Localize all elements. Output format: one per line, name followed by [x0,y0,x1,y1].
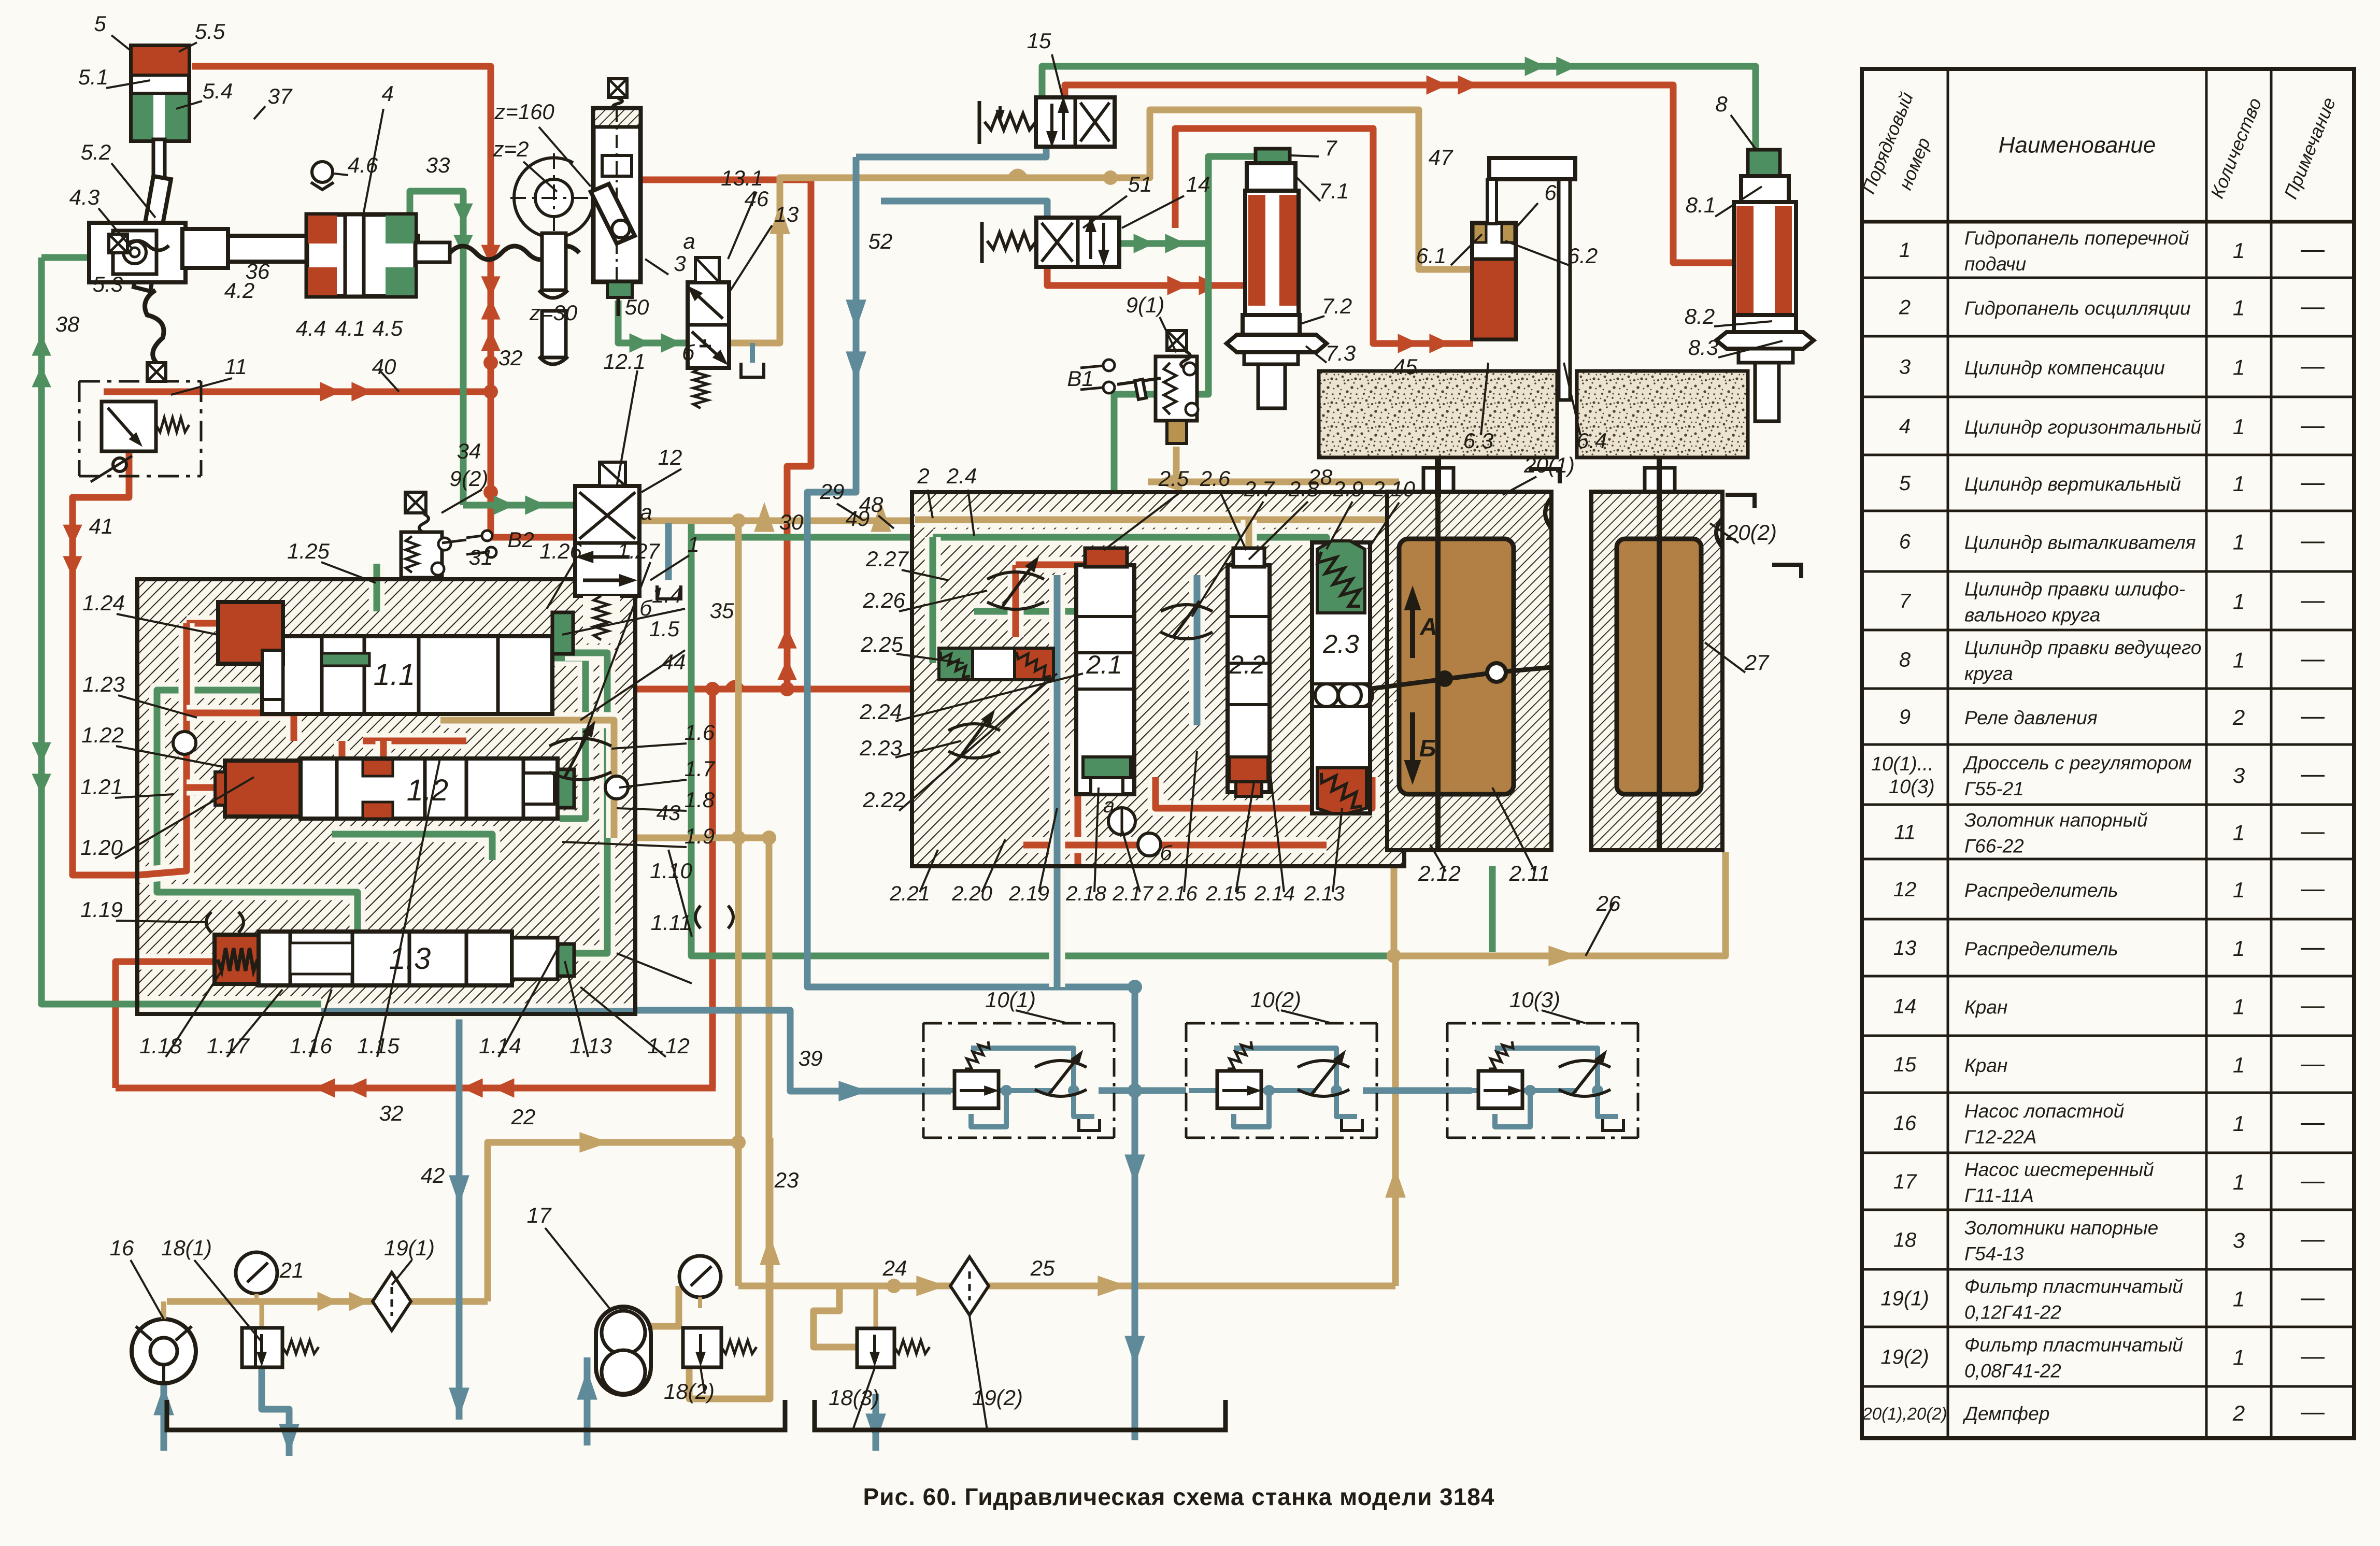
svg-text:1.23: 1.23 [82,672,125,696]
wire tan 29 corridor vertical [735,521,742,1286]
wire tan 30 49 from distributor 12 [637,518,915,524]
pressure valve 18(1) [242,1328,282,1367]
svg-text:1.20: 1.20 [80,835,123,860]
svg-text:Золотники напорные: Золотники напорные [1964,1218,2158,1239]
cylinder 7 pointed collar 7.3 [1227,335,1327,352]
svg-text:—: — [2301,1284,2325,1311]
svg-text:48: 48 [859,492,883,517]
10(2) relief box [1217,1071,1261,1108]
svg-text:2.9: 2.9 [1333,477,1363,501]
bracket 4.3 [89,223,186,282]
svg-text:—: — [2301,933,2325,960]
svg-text:19(1): 19(1) [1880,1287,1929,1310]
svg-text:3: 3 [674,251,686,276]
svg-text:11: 11 [224,354,247,379]
svg-text:1: 1 [2233,590,2245,614]
svg-text:—: — [2301,1108,2325,1135]
svg-text:a: a [640,500,652,524]
distributor 13 drain bracket [741,363,764,377]
wire blue 42 vertical from panel 1 [456,1011,463,1420]
svg-text:1.13: 1.13 [569,1034,612,1058]
grinding wheel z=160 [514,158,594,238]
compensation cylinder 3 [593,108,640,282]
svg-text:Насос шестеренный: Насос шестеренный [1964,1159,2154,1180]
svg-text:1: 1 [2233,296,2245,320]
10(2) adjustable throttle [1298,1061,1349,1067]
svg-text:б: б [682,340,695,365]
crane 15 spring lever [978,101,981,144]
svg-text:50: 50 [625,295,649,319]
svg-text:z=30: z=30 [529,300,578,325]
spool 1.1 [262,636,552,714]
panel 2 wire blue internals [1049,575,1065,987]
pilot valve green spring box 2.25 [939,648,973,680]
dresser cylinder 7 [1256,149,1290,163]
svg-text:11: 11 [1894,821,1916,844]
10(1) drain bracket [1079,1119,1100,1130]
throttle with regulator 10(3) dash-dot box [1447,1022,1638,1025]
wire tan valve 18(3) loop [814,1286,857,1347]
spool 1.3 green end 1.13 [558,944,574,976]
cylinder 5 tilted arm 5.2 [134,176,171,291]
svg-text:34: 34 [457,439,481,463]
distributor 12 [575,486,639,596]
svg-text:1: 1 [1899,239,1911,262]
svg-text:15: 15 [1893,1053,1917,1076]
svg-text:2.14: 2.14 [1254,882,1295,905]
svg-text:1.4: 1.4 [652,583,682,607]
svg-text:1.1: 1.1 [374,658,416,692]
svg-text:22: 22 [511,1105,536,1129]
wire red 40 from relief valve 11 to main trunk [104,389,491,395]
svg-text:8: 8 [1899,649,1911,671]
valve 2.3 column with springs [1312,542,1370,813]
panel 1 wire red internals [187,615,218,632]
svg-text:—: — [2301,1342,2325,1369]
svg-text:Г66-22: Г66-22 [1964,836,2024,857]
svg-text:7.1: 7.1 [1319,179,1349,203]
panel 2 wire red internals [1008,565,1024,637]
svg-text:1: 1 [2233,1287,2245,1311]
wire green corridor vertical to oscillation panel [691,521,1388,956]
hydropanel 1 cross feed block [137,579,635,1014]
wire blue 52 vertical [807,157,1131,987]
svg-text:Фильтр пластинчатый: Фильтр пластинчатый [1964,1335,2183,1356]
svg-text:2.21: 2.21 [889,882,930,905]
svg-text:10(2): 10(2) [1250,987,1301,1012]
svg-text:a: a [683,229,695,253]
svg-text:16: 16 [1893,1112,1917,1135]
tank bracket right [815,1400,1225,1430]
svg-text:—: — [2301,586,2325,613]
crane 15 [1036,97,1115,147]
svg-text:1: 1 [2233,355,2245,380]
svg-text:2.8: 2.8 [1288,477,1319,501]
cylinder 8 pointed collar 8.3 [1716,332,1814,349]
wire red top loop from crane 15 to cylinder 8 [1065,85,1736,263]
svg-text:Г11-11А: Г11-11А [1964,1185,2034,1206]
wire tan 26 bottom of reservoirs [1394,850,1726,956]
svg-text:2.25: 2.25 [860,632,903,656]
cylinder 4 rod right [416,242,450,262]
reservoir 2 stem [1657,457,1662,850]
svg-text:27: 27 [1744,650,1770,675]
svg-text:0,12Г41-22: 0,12Г41-22 [1964,1302,2061,1323]
svg-text:2.27: 2.27 [865,547,909,571]
svg-text:Демпфер: Демпфер [1962,1403,2049,1424]
svg-text:Гидропанель поперечной: Гидропанель поперечной [1964,227,2189,249]
svg-text:z=2: z=2 [493,137,529,161]
svg-text:10(3): 10(3) [1509,987,1560,1012]
svg-text:2.15: 2.15 [1205,882,1247,905]
svg-text:43: 43 [657,800,681,825]
svg-text:Дроссель с регулятором: Дроссель с регулятором [1962,752,2192,774]
cylinder 3 tilted link [591,184,635,244]
wire red 32 long bottom line [116,1085,716,1092]
svg-text:1: 1 [2233,530,2245,554]
svg-text:19(2): 19(2) [1880,1346,1929,1369]
spool 1.2 [301,758,558,819]
svg-text:2.10: 2.10 [1372,477,1415,501]
svg-text:—: — [2301,1167,2325,1194]
svg-text:13: 13 [1893,937,1917,960]
svg-text:Г12-22А: Г12-22А [1964,1126,2036,1148]
svg-text:подачи: подачи [1964,253,2026,275]
svg-text:Распределитель: Распределитель [1964,938,2118,960]
reservoir 2 tank 27 brown [1617,539,1701,794]
svg-text:Цилиндр правки ведущего: Цилиндр правки ведущего [1964,637,2201,659]
wire tan 24 25 bottom run [738,1283,1395,1290]
svg-text:5.5: 5.5 [195,19,225,44]
svg-text:Распределитель: Распределитель [1964,880,2118,901]
wire tan 28 into oscillation panel [1148,479,1399,485]
svg-text:Г54-13: Г54-13 [1964,1243,2024,1265]
svg-text:1: 1 [2233,878,2245,902]
svg-text:25: 25 [1030,1256,1055,1280]
svg-text:2.2: 2.2 [1229,650,1265,679]
svg-text:7: 7 [1899,590,1912,613]
svg-text:9: 9 [1899,706,1911,728]
damper 20(2) bracket [1716,518,1722,547]
pressure valve 18(3) tan stub [874,1286,878,1328]
wire red 37 from cylinder 5 to main red trunk [192,66,491,363]
svg-text:32: 32 [379,1101,404,1125]
gauge at pump 16 [236,1252,277,1294]
svg-text:1: 1 [2233,1053,2245,1077]
svg-text:18(1): 18(1) [161,1236,212,1260]
svg-text:8.2: 8.2 [1685,304,1715,328]
lead cylinder 8 [1748,150,1780,176]
svg-text:Кран: Кран [1964,1055,2007,1076]
wire blue to crane 14 [881,201,1047,218]
10(1) relief box [954,1071,999,1108]
reservoir 1 lever and pivots [1436,670,1453,687]
valve 2.1 column [1076,565,1134,794]
svg-text:Кран: Кран [1964,997,2007,1018]
svg-text:6.1: 6.1 [1416,244,1446,268]
svg-text:3: 3 [2233,1228,2245,1253]
svg-text:1: 1 [2233,1345,2245,1370]
svg-text:1.24: 1.24 [82,591,125,615]
svg-text:4: 4 [1899,415,1911,438]
svg-text:B1: B1 [1067,366,1093,391]
wire red left column to 1.18 [116,962,217,1088]
svg-text:—: — [2301,702,2325,729]
svg-text:z=160: z=160 [494,99,554,124]
svg-text:1.9: 1.9 [685,824,715,848]
svg-text:Реле давления: Реле давления [1964,707,2098,728]
svg-text:2: 2 [2232,1401,2245,1425]
check valve 1.21 [173,732,196,754]
svg-text:вального круга: вального круга [1964,605,2100,626]
svg-text:9(2): 9(2) [450,466,489,491]
wire blue main return vertical 42 middle [1132,987,1138,1440]
svg-text:Насос лопастной: Насос лопастной [1964,1100,2124,1122]
svg-text:Цилиндр компенсации: Цилиндр компенсации [1964,357,2165,379]
svg-text:9(1): 9(1) [1126,293,1165,317]
reservoir 1 inner white notches [1393,562,1436,674]
svg-text:42: 42 [421,1163,445,1187]
vane pump 16 [132,1319,196,1383]
svg-text:18(3): 18(3) [829,1385,879,1410]
leader lines for labels [111,35,132,52]
pressure relay 9(1) [1156,356,1197,421]
10(1) internal blue wiring [926,1088,954,1093]
svg-text:17: 17 [527,1203,552,1227]
svg-text:3: 3 [1899,356,1911,379]
svg-text:14: 14 [1893,995,1917,1018]
cylinder 7 stem [1244,352,1298,364]
svg-text:32: 32 [498,346,523,370]
arrow B down [1410,712,1415,772]
wire green stub to carriage [41,254,228,261]
svg-text:8.3: 8.3 [1688,335,1718,360]
svg-text:Цилиндр вертикальный: Цилиндр вертикальный [1964,474,2181,495]
svg-text:1.25: 1.25 [287,539,330,563]
svg-text:2.22: 2.22 [862,788,905,812]
svg-text:Цилиндр правки шлифо-: Цилиндр правки шлифо- [1964,579,2185,600]
svg-text:—: — [2301,1225,2325,1252]
panel 1 wire green internals [157,665,358,933]
reservoir container 1 hatched [1387,492,1551,850]
panel 2 wire green to valve 2.1 [974,565,1088,611]
svg-text:—: — [2301,235,2325,262]
wire tan 22 from pump group [488,1142,739,1301]
wire green from crane 14 to dresser cylinder 7 [1118,156,1257,244]
wire red 41 from relief valve down into panel 1 [73,451,138,875]
panel 1 wire tan internals 43 [440,720,614,838]
svg-text:6.2: 6.2 [1567,244,1598,268]
svg-text:17: 17 [1893,1170,1917,1193]
svg-text:—: — [2301,411,2325,438]
svg-text:Г55-21: Г55-21 [1964,778,2024,799]
10(3) relief box [1478,1071,1522,1108]
svg-text:46: 46 [745,187,769,211]
svg-text:18(2): 18(2) [664,1379,715,1404]
wire green 34 into distributor 12 [463,502,576,509]
svg-text:47: 47 [1429,145,1453,169]
arrow A up [1410,598,1415,658]
crane 14 [1036,218,1119,267]
spool 1.1 green end 1.4 [552,612,573,654]
wire green 33 from horizontal cylinder [410,191,463,505]
svg-text:29: 29 [820,479,845,504]
svg-text:33: 33 [426,153,450,177]
wire red 52 vertical middle [787,180,811,689]
pressure valve 18(3) [857,1328,894,1367]
10(3) adjustable throttle [1559,1061,1611,1067]
svg-text:—: — [2301,645,2325,672]
svg-text:1: 1 [2233,471,2245,496]
wire red horizontal 46 junction area [617,177,811,183]
wire red 44 from panel 1 to oscillation panel [635,686,1016,693]
pilot valve red spring box 2.24 [1015,648,1053,680]
svg-text:4: 4 [381,81,393,106]
svg-text:б: б [1160,842,1173,865]
switch B2 contacts [482,531,492,541]
svg-text:5.1: 5.1 [78,65,108,89]
wire blue panel 1 bottom to 39 line [635,1010,951,1091]
svg-text:10(1)...: 10(1)... [1871,753,1933,775]
throttle symbol 2.7 middle [1161,605,1213,611]
svg-text:А: А [1419,613,1437,640]
svg-text:37: 37 [268,84,293,108]
reservoir 1 stem [1435,457,1441,850]
svg-text:20(1): 20(1) [1523,453,1575,477]
reservoir 1 piston block [1423,468,1453,492]
relay 9(1) tan foot [1167,421,1187,443]
svg-text:30: 30 [779,510,804,534]
svg-text:1.5: 1.5 [649,617,680,641]
valve 2.2 column [1228,565,1270,792]
svg-text:8.1: 8.1 [1686,193,1716,217]
cylinder 7 collar 7.2 [1243,315,1300,335]
svg-text:4.1: 4.1 [335,316,365,340]
svg-text:2.4: 2.4 [946,464,977,488]
svg-text:2.13: 2.13 [1304,882,1345,905]
svg-text:2: 2 [917,464,929,488]
svg-text:2.19: 2.19 [1008,882,1049,905]
horizontal cylinder 4 [307,214,416,296]
svg-text:8: 8 [1715,92,1728,116]
pressure valve 18(2) [683,1328,721,1367]
panel 2 wire green top [933,537,1327,565]
svg-text:1: 1 [2233,821,2245,845]
distributor 12 solenoid 12.1 [600,462,625,486]
crane 14 spring lever [980,222,984,263]
svg-text:1.22: 1.22 [81,723,124,747]
svg-text:5.4: 5.4 [203,79,233,103]
svg-text:4.4: 4.4 [296,316,326,340]
svg-text:24: 24 [882,1256,907,1280]
svg-text:1: 1 [687,532,699,556]
svg-text:Цилиндр горизонтальный: Цилиндр горизонтальный [1964,417,2201,438]
cylinder 5 vertical [131,46,189,141]
svg-text:круга: круга [1964,663,2013,684]
svg-text:0,08Г41-22: 0,08Г41-22 [1964,1361,2061,1382]
wire tan 21 pump 16 output [167,1298,488,1305]
distributor 12 spring [583,596,620,643]
wire tan pump 17 to line [647,1286,679,1326]
svg-text:1.26: 1.26 [539,539,582,563]
svg-text:—: — [2301,818,2325,844]
svg-text:15: 15 [1027,28,1051,53]
svg-text:1: 1 [2233,238,2245,263]
svg-text:12: 12 [1893,878,1917,901]
svg-text:7.2: 7.2 [1322,294,1352,318]
gear pump 17 [596,1307,651,1395]
worm shaft z=30 [542,233,566,290]
component table [1862,69,2354,1438]
svg-text:2.17: 2.17 [1112,882,1154,905]
piston rod 4.2 [228,236,418,262]
svg-text:5: 5 [1899,472,1911,495]
svg-text:Гидропанель осцилляции: Гидропанель осцилляции [1964,298,2191,319]
svg-text:—: — [2301,293,2325,320]
10(2) internal blue wiring [1189,1088,1217,1093]
svg-text:35: 35 [710,598,734,623]
svg-text:—: — [2301,1398,2325,1425]
filter 19(2) [950,1257,989,1315]
cylinder 5 rod [153,139,165,178]
svg-text:41: 41 [89,514,113,538]
svg-text:16: 16 [110,1236,134,1260]
svg-text:14: 14 [1186,172,1210,196]
svg-text:Золотник напорный: Золотник напорный [1964,810,2148,831]
svg-text:1.21: 1.21 [80,775,123,799]
svg-text:4.3: 4.3 [69,185,99,209]
ejector cylinder 6 [1472,223,1516,339]
svg-text:Фильтр пластинчатый: Фильтр пластинчатый [1964,1276,2183,1297]
relief valve 11 square [102,402,156,451]
svg-text:2.16: 2.16 [1157,882,1198,905]
svg-text:5: 5 [94,11,106,36]
svg-text:2.26: 2.26 [862,588,905,612]
wire red corridor vertical down to bottom line [709,689,716,1088]
svg-text:52: 52 [868,229,893,253]
distributor 12 drain a b [665,523,672,580]
panel 2 border restroke [912,492,1404,866]
svg-text:2.12: 2.12 [1418,861,1461,885]
wire red 45-47 loop to ejector cylinder 6.3 [1047,228,1249,285]
svg-text:21: 21 [279,1258,304,1282]
wire blue to crane 15 [856,148,1046,157]
svg-text:6.4: 6.4 [1577,428,1607,453]
brace marks 1.19 [206,912,211,933]
wavy drive line 36 [450,246,579,260]
svg-text:a: a [1103,794,1115,817]
svg-text:Рис. 60. Гидравлическая схема: Рис. 60. Гидравлическая схема станка мод… [863,1483,1495,1510]
10(2) drain bracket [1342,1119,1362,1130]
wire blue link between throttle blocks [1099,1087,1186,1094]
relief valve 11.1 check ball [113,458,126,471]
hydropanel 2 oscillation block [912,492,1404,866]
check valve 1.7 right [605,776,628,799]
svg-text:—: — [2301,992,2325,1019]
speckled table rectangle right [1577,371,1748,457]
svg-text:19(2): 19(2) [972,1385,1023,1410]
svg-text:2.11: 2.11 [1509,861,1550,885]
svg-text:1.6: 1.6 [685,720,715,745]
spool 1.2 green end 1.9 [558,769,574,808]
reservoir container 2 hatched [1591,492,1722,850]
distributor 13 solenoid 13.1 [695,257,719,282]
throttle symbol 2.26 [987,572,1044,579]
svg-text:—: — [2301,468,2325,495]
svg-text:2.7: 2.7 [1244,477,1275,501]
wire red 45 from crane 14 to cylinder 6 [1175,128,1473,343]
wire green top loop crane 15 to cylinder 8 cap [1042,66,1756,155]
